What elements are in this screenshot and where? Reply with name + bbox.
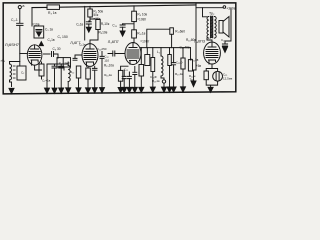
svg-text:=10Вт: =10Вт (140, 39, 149, 43)
resistor R7 (96, 20, 100, 30)
wire C13 (94, 66, 96, 87)
wire L5 up (160, 48, 162, 56)
transformer T2 core (210, 16, 213, 38)
wire cathode bottom bus (206, 80, 217, 88)
svg-text:12,5мк: 12,5мк (223, 76, 233, 80)
ground arrow g14 (167, 87, 172, 92)
capacitor C3 plates (36, 30, 42, 32)
tube V1 grids (29, 52, 40, 58)
wire g4 (67, 82, 69, 88)
svg-text:R₁₀1в: R₁₀1в (137, 32, 145, 36)
capacitor C1 (17, 23, 23, 25)
wire coupling to box (54, 54, 59, 58)
electrolytic C21 plates (216, 72, 219, 80)
svg-text:R₁₅10в: R₁₅10в (104, 64, 114, 68)
tube V3 cathode (130, 61, 137, 65)
wire mid to R17 (147, 29, 170, 47)
resistor R5 drop (89, 6, 91, 9)
svg-text:R₁₇6в0: R₁₇6в0 (175, 29, 185, 33)
tube V4 envelope (204, 42, 221, 64)
ground arrow g7 (92, 88, 97, 93)
svg-text:=10Вт: =10Вт (137, 18, 146, 22)
svg-text:C₂=1в: C₂=1в (42, 79, 51, 83)
border frame (3, 3, 236, 94)
svg-text:C₁₄250: C₁₄250 (97, 47, 107, 51)
svg-text:R₂₁1в: R₂₁1в (190, 58, 198, 62)
svg-text:C₄1в: C₄1в (48, 38, 55, 42)
wire Ra up (146, 48, 148, 55)
svg-text:C₁₈Ф: C₁₈Ф (150, 75, 157, 79)
svg-text:R₈10в: R₈10в (99, 31, 108, 35)
svg-text:+5в: +5в (196, 64, 202, 68)
wire output ground (194, 70, 197, 81)
wire R17 down (171, 34, 173, 47)
tube V4 plate (208, 42, 216, 47)
capacitor C17 (133, 72, 137, 74)
svg-text:C₃ 1в: C₃ 1в (45, 28, 53, 32)
ground arrow g11 (139, 87, 144, 92)
box divider (62, 58, 64, 67)
svg-text:зC₄: зC₄ (0, 59, 6, 63)
wire L5 down (161, 76, 164, 87)
wire bus to R_c (140, 48, 142, 65)
resistor R16 (118, 70, 122, 81)
resistor R20 (181, 58, 185, 69)
svg-text:C₈ 30: C₈ 30 (53, 47, 61, 51)
wire C12 branch (100, 52, 104, 88)
tube V2 grids (84, 52, 96, 60)
resistor R4 (39, 64, 44, 76)
ground arrow g5 (76, 88, 81, 93)
wire box down (63, 67, 65, 70)
speaker cone (223, 17, 229, 38)
resistor R17 (170, 28, 174, 35)
ground arrow under C6 (86, 27, 91, 32)
wire g1 (46, 72, 48, 88)
ground arrow g13 (162, 87, 167, 92)
svg-text:Л₃6П7: Л₃6П7 (108, 40, 119, 44)
tube V3 plate (129, 43, 137, 48)
capacitor C12 (59, 66, 64, 68)
ground arrow g15 (171, 87, 176, 92)
wire T2 to tube4 (207, 38, 212, 42)
wire right drop (225, 9, 231, 44)
arrow up to tube1 grid (39, 42, 43, 46)
tube V1 cathode (31, 60, 38, 65)
resistor R5 (88, 9, 93, 17)
antenna terminal A (18, 6, 21, 9)
wire g3 (60, 68, 62, 88)
speaker box (219, 21, 223, 34)
svg-text:Тр₂: Тр₂ (209, 12, 215, 16)
resistor R14 (86, 68, 91, 79)
coil L5 (161, 56, 163, 76)
wire R9 to junction (123, 22, 134, 30)
tube V1 plate lead (31, 45, 39, 49)
svg-text:C₂₀40в: C₂₀40в (180, 45, 190, 49)
svg-text:C₇ 150: C₇ 150 (58, 35, 68, 39)
svg-text:З: З (59, 61, 61, 65)
capacitor C16 (127, 76, 131, 78)
wire C10 down (122, 27, 124, 31)
wire L2 top (67, 62, 69, 66)
ground arrow output (191, 81, 196, 87)
box shielded cap C3 (34, 26, 44, 38)
ground arrow g9 (122, 87, 127, 92)
resistor R22 (204, 71, 208, 80)
ground arrow g4 (66, 88, 71, 93)
wire C14 to tube3 (108, 53, 125, 55)
ground arrow g10 (127, 87, 132, 92)
wire R14 (87, 66, 89, 88)
ground arrow under C10 (120, 31, 125, 36)
svg-text:C₂₁: C₂₁ (221, 38, 225, 42)
wire g2 (54, 68, 56, 88)
tube V2 plate (86, 44, 94, 49)
wire R19 up (152, 48, 154, 58)
capacitor C11 (52, 66, 57, 68)
tube V2 envelope (82, 44, 98, 67)
ground arrow under C21 (208, 87, 213, 92)
wire tube2 grid left (75, 55, 82, 58)
transformer T2 secondary (214, 17, 216, 39)
wire caps top (47, 64, 68, 72)
svg-text:C₂-1: C₂-1 (11, 18, 18, 22)
svg-text:C₆1в: C₆1в (76, 23, 83, 27)
resistor R3 (47, 5, 60, 9)
wire tube1 to coupling (44, 53, 51, 55)
capacitor C5 coupling (52, 52, 54, 57)
ground arrow g3 (59, 88, 64, 93)
wire C19 (173, 48, 175, 87)
tube V4 grids (206, 50, 218, 58)
ground arrow g2 (52, 88, 57, 93)
stacked resistor R9 drop (133, 6, 135, 11)
wire R16 (121, 66, 128, 87)
capacitor C10 (120, 24, 125, 27)
resistor R21b (188, 60, 192, 71)
ground arrow g6 (86, 88, 91, 93)
ground arrow under C12 (100, 88, 105, 93)
coil L2 (68, 66, 70, 82)
capacitor C19 (172, 63, 176, 65)
B+ rail (32, 5, 196, 8)
wire C15 (123, 70, 125, 87)
svg-text:R₁₆1в: R₁₆1в (104, 73, 112, 77)
wire R20a down (169, 66, 171, 88)
terminal on L5 ground (162, 80, 165, 83)
tube V2 cathode (86, 62, 94, 66)
svg-text:R₃ 1в: R₃ 1в (48, 11, 57, 15)
svg-text:R₇10к: R₇10к (101, 22, 110, 26)
resistor R7 drop (97, 18, 99, 21)
wire R5 to C6 (89, 17, 98, 22)
svg-text:R₂₀1в: R₂₀1в (175, 72, 183, 76)
mid bus (140, 47, 191, 49)
box 1k3 (57, 58, 71, 67)
wire coil top (10, 62, 20, 65)
input transformer secondary box (17, 66, 26, 80)
wire rail drop x32 (31, 8, 33, 26)
+300 terminal (223, 6, 226, 9)
tube V1 envelope (27, 45, 42, 65)
input transformer core (13, 66, 15, 78)
wire R10 to tube3 (133, 38, 135, 43)
svg-text:C₁₀: C₁₀ (112, 23, 117, 27)
svg-text:R₉ 10в: R₉ 10в (137, 13, 147, 17)
capacitor C15 (122, 76, 126, 78)
capacitor C6 (86, 22, 91, 24)
svg-text:1в3: 1в3 (64, 61, 69, 65)
wire antenna down (19, 9, 21, 24)
wire tube4 cathode down (206, 65, 217, 72)
resistor R13 (76, 66, 81, 78)
arrow under C22 (223, 47, 228, 52)
resistor R20a (168, 55, 172, 66)
capacitor C8 (73, 58, 77, 60)
svg-text:C₁₉Ф: C₁₉Ф (176, 61, 183, 65)
svg-text:Л₁6SH7: Л₁6SH7 (5, 42, 20, 47)
capacitor C22 (222, 44, 227, 46)
wire C6 down (88, 24, 90, 27)
capacitor C14 (113, 51, 115, 56)
wire R19 down (152, 72, 154, 88)
wire plate drop x84.7 (84, 6, 86, 40)
small resistor Ra (145, 55, 150, 66)
svg-text:Л₄6П3: Л₄6П3 (194, 40, 205, 44)
resistor R_c (139, 65, 144, 77)
tube V4 cathode (209, 60, 216, 64)
ground arrow g10b (132, 87, 137, 92)
wire tube1 bottom (35, 62, 42, 79)
wire R_c (140, 76, 142, 87)
electrolytic C21 (213, 71, 223, 81)
ground arrow bottom left (9, 88, 14, 93)
wire C16 (128, 72, 130, 87)
ground arrow g8 (118, 88, 123, 93)
ground arrow g12 (150, 87, 155, 92)
tube V3 envelope (125, 43, 141, 65)
wire coil bottom to arrow (10, 80, 12, 87)
wire R21b up (190, 48, 192, 60)
resistor R9 (132, 11, 137, 21)
wire R20 up (182, 48, 184, 58)
wire R13 (78, 78, 80, 88)
wire C1 to input coil (19, 25, 21, 66)
wire R20a up (169, 48, 171, 55)
output drop x196 (195, 3, 197, 70)
wire R7 to tube2 (90, 30, 98, 44)
resistor R19 (151, 58, 155, 72)
input transformer coil L1 (10, 64, 12, 80)
wire C17 (134, 67, 136, 88)
wire R20 down (182, 69, 184, 87)
wire T2 primary top (203, 8, 207, 17)
svg-text:110: 110 (104, 59, 109, 63)
ground arrow g16 (181, 87, 186, 92)
tube V3 grids (127, 50, 139, 58)
arrow in C3 box (37, 32, 41, 36)
transformer T2 primary (207, 17, 209, 39)
capacitor C13 (92, 68, 97, 70)
top right feed (196, 7, 223, 9)
ground arrow g1 (45, 88, 50, 93)
wire tube1 grid to input (20, 53, 28, 55)
resistor R10 (132, 30, 137, 38)
